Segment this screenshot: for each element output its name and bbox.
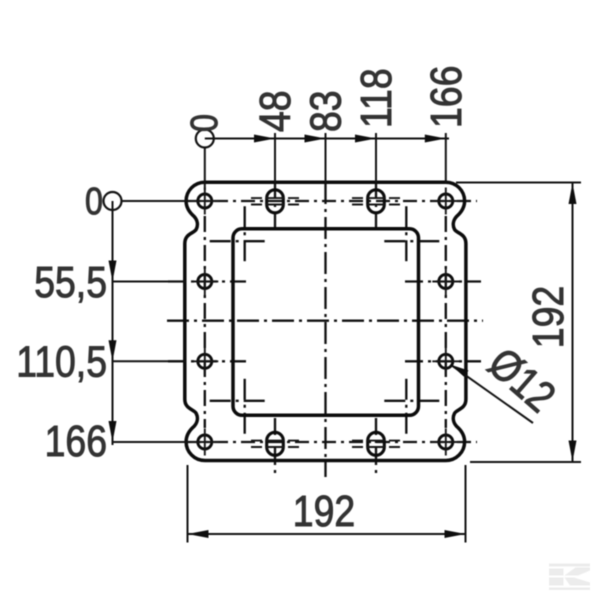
- side hole row centerline 110.5: [168, 360, 246, 362]
- svg-text:166: 166: [45, 416, 107, 466]
- origin circle: [104, 192, 122, 210]
- right dimension 192: [456, 183, 581, 463]
- dim line: [205, 138, 449, 140]
- arrow 55.5: [109, 261, 117, 282]
- cross top-left: [244, 206, 246, 263]
- dim line: [572, 183, 574, 462]
- side hole row centerline 55.5: [168, 280, 246, 282]
- bottom dimension 192: [188, 465, 466, 543]
- extension line bottom: [470, 461, 581, 463]
- slot top 48: [251, 190, 299, 213]
- svg-text:Ø12: Ø12: [479, 338, 565, 422]
- cross bottom-right: [405, 379, 407, 436]
- svg-text:48: 48: [250, 90, 300, 132]
- flange outline: [185, 182, 466, 460]
- svg-text:166: 166: [421, 66, 471, 128]
- centerlines: [167, 182, 483, 477]
- arrow right: [445, 530, 466, 538]
- slot column centerline 118: [375, 182, 377, 227]
- svg-text:55,5: 55,5: [34, 257, 107, 307]
- inner corner cross marks: [210, 206, 442, 436]
- extension row 110.5: [112, 360, 187, 362]
- extension line 166: [445, 133, 447, 183]
- cross top-right: [405, 206, 407, 263]
- bolt row centerline bottom: [187, 441, 477, 443]
- arrow up: [569, 183, 577, 204]
- arrow 166: [425, 135, 446, 143]
- side hole right 110.5: [432, 348, 459, 375]
- extension line 118: [375, 133, 377, 183]
- bolt row centerline top: [187, 200, 477, 202]
- watermark logo: [549, 564, 590, 591]
- leader Ø12: [451, 338, 566, 423]
- slot top 118: [352, 190, 400, 213]
- arrow 118: [355, 135, 376, 143]
- extension row 55.5: [112, 281, 187, 283]
- bolt column centerline left: [204, 216, 206, 428]
- svg-text:83: 83: [301, 90, 351, 132]
- arrow 110.5: [109, 340, 117, 361]
- origin circle: [196, 130, 214, 148]
- svg-text:118: 118: [351, 68, 401, 128]
- side hole left 110.5: [191, 348, 218, 375]
- dim line: [112, 201, 114, 445]
- corner hole top-right: [432, 188, 459, 215]
- left dimension chain: [104, 192, 189, 445]
- horizontal main centerline: [167, 320, 483, 322]
- svg-text:192: 192: [523, 286, 573, 348]
- extension line right: [465, 465, 467, 543]
- arrow down: [569, 441, 577, 462]
- extension line top: [456, 182, 581, 184]
- extension line left: [187, 465, 189, 543]
- extension line 0 to plate: [204, 148, 206, 191]
- side hole right 55.5: [432, 268, 459, 295]
- corner hole bottom-right: [432, 429, 459, 456]
- extension line 48: [274, 133, 276, 183]
- corner hole top-left: [191, 188, 218, 215]
- vertical main centerline: [324, 182, 326, 477]
- arrow 166: [109, 421, 117, 442]
- svg-text:192: 192: [293, 486, 355, 536]
- cross bottom-left: [244, 379, 246, 436]
- svg-text:110,5: 110,5: [16, 337, 107, 387]
- svg-text:0: 0: [85, 181, 103, 223]
- arrow left: [188, 530, 209, 538]
- arrow 83: [305, 135, 326, 143]
- inner square opening: [233, 229, 419, 415]
- arrow 48: [254, 135, 275, 143]
- side hole left 55.5: [191, 268, 218, 295]
- corner hole bottom-left: [191, 429, 218, 456]
- extension row 166: [112, 441, 189, 443]
- bolt column centerline right: [445, 216, 447, 428]
- dim line: [188, 533, 466, 535]
- svg-text:0: 0: [184, 114, 226, 132]
- slot bottom 118: [352, 432, 400, 455]
- slot bottom 48: [251, 432, 299, 455]
- slot column centerline 48: [274, 182, 276, 227]
- extension row 0: [122, 200, 189, 202]
- top dimension chain: [196, 130, 449, 191]
- extension line 83: [325, 133, 327, 183]
